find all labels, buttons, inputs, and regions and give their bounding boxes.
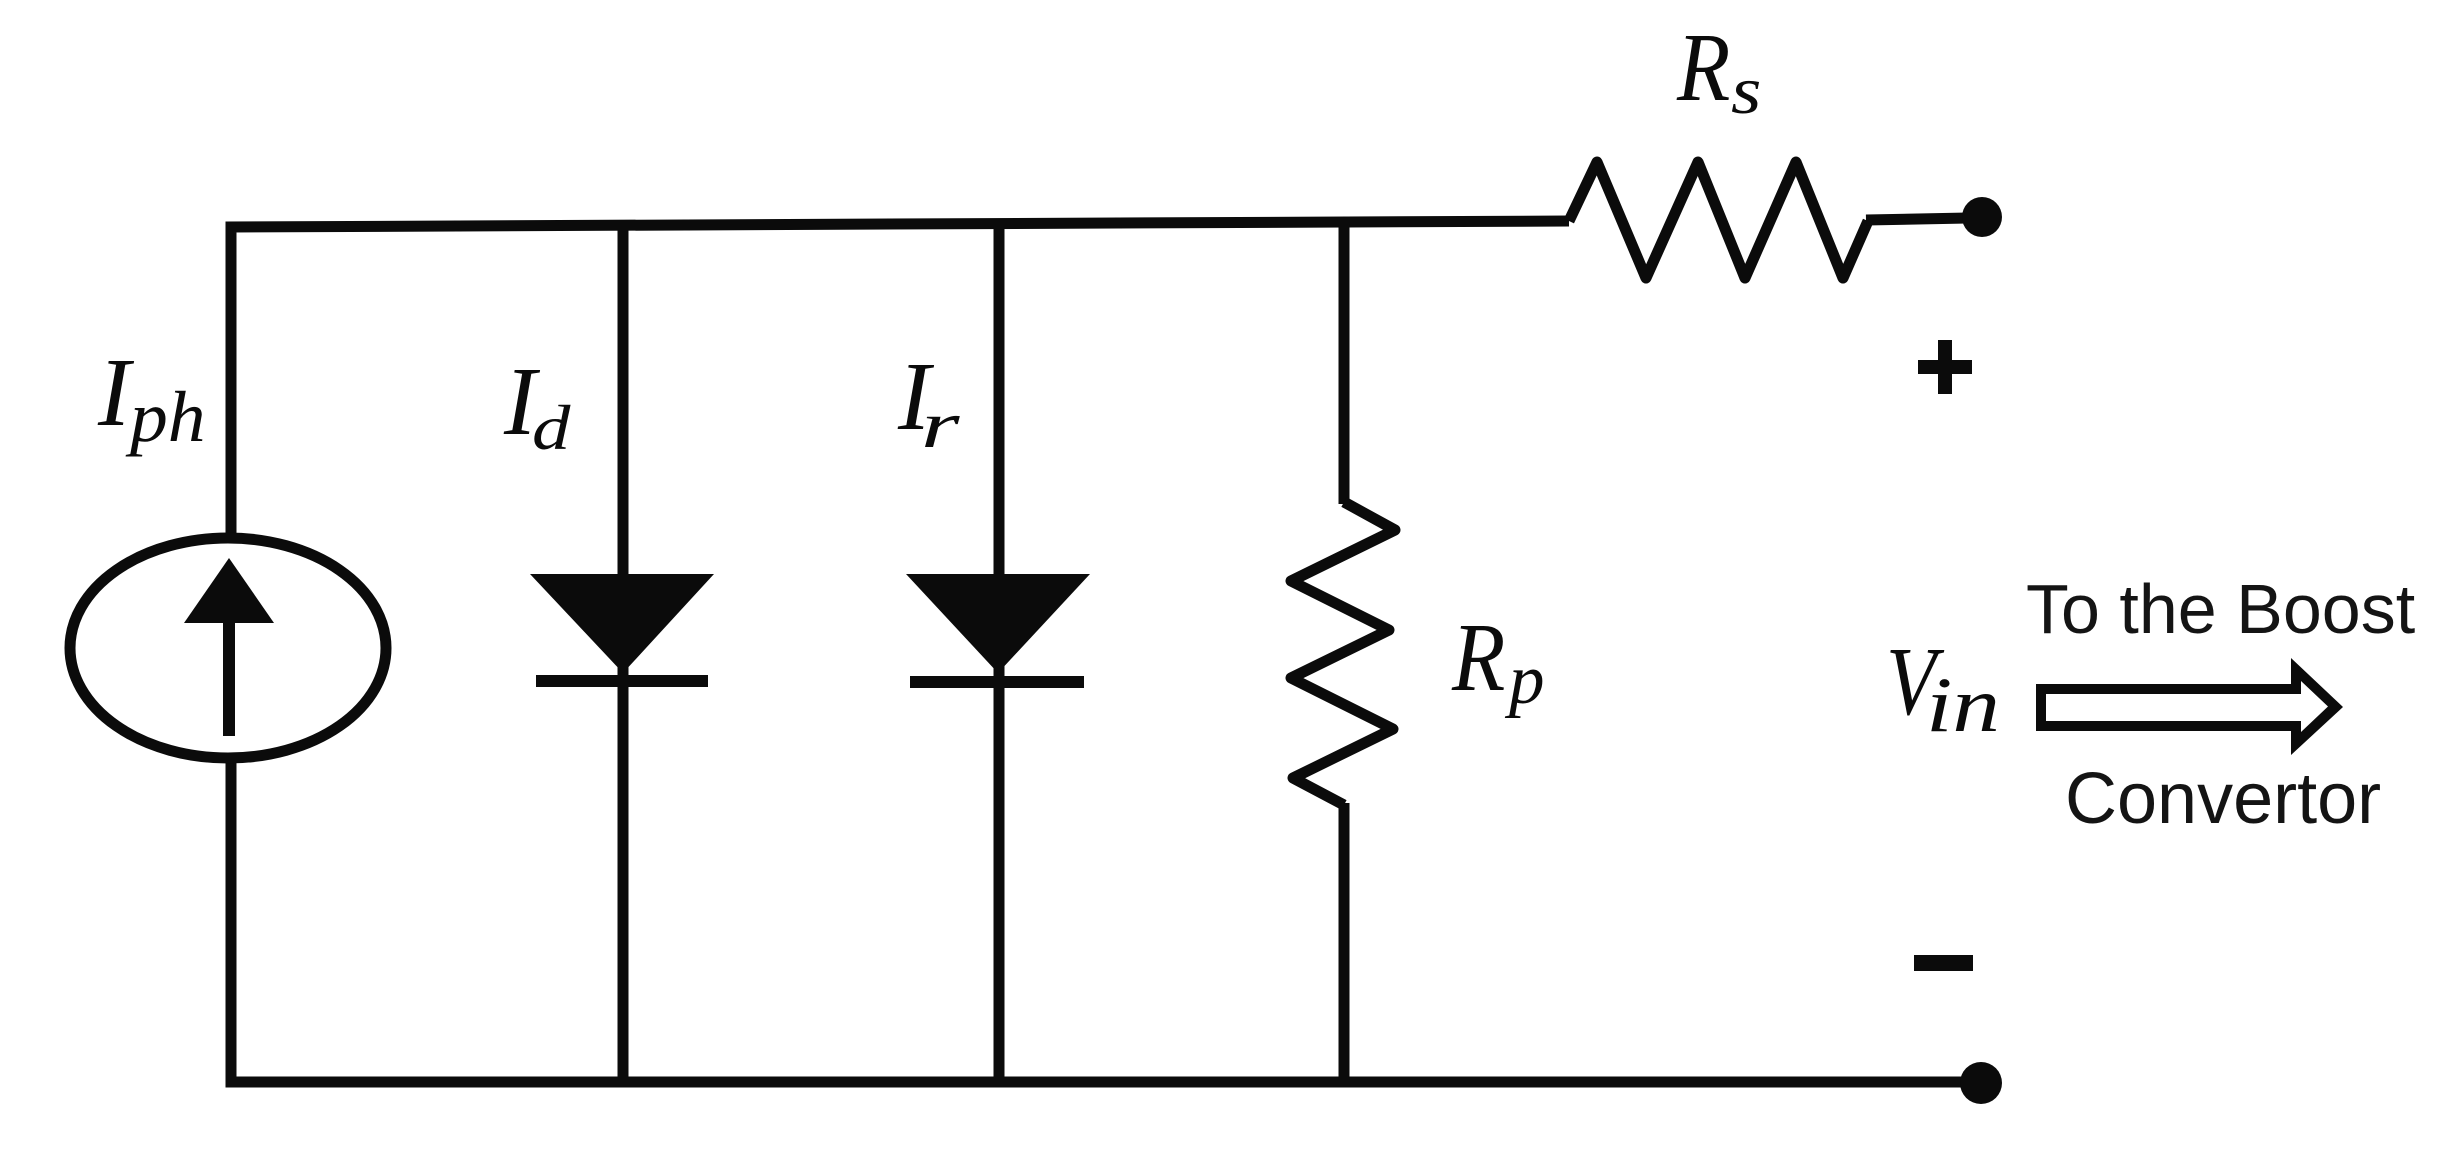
current source arrow head [184, 558, 274, 623]
label Vin [1886, 629, 1945, 736]
diode D1 (Id) triangle [530, 574, 714, 673]
svg-text:To the Boost: To the Boost [2026, 570, 2415, 648]
svg-text:ph: ph [125, 377, 206, 457]
wire left branch bottom and bottom rail [231, 758, 1978, 1082]
diode D2 cathode bar [910, 676, 1084, 688]
label Rp [1451, 604, 1505, 711]
svg-text:in: in [1926, 661, 2000, 748]
svg-text:s: s [1731, 53, 1761, 128]
resistor Rp zigzag [1291, 502, 1395, 805]
label Iph [97, 339, 135, 446]
svg-text:R: R [1451, 604, 1505, 711]
diode D1 cathode bar [536, 675, 708, 687]
svg-text:R: R [1676, 14, 1730, 121]
block arrow to boost convertor: outer [2036, 658, 2343, 755]
minus sign [1914, 955, 1973, 971]
svg-text:d: d [532, 393, 571, 464]
plus sign [1918, 360, 1972, 374]
svg-text:r: r [921, 389, 960, 462]
resistor Rs zigzag [1569, 162, 1868, 278]
wire diode branch D1 [618, 224, 629, 1082]
wire diode branch D2 [994, 222, 1005, 1082]
label Ir [897, 343, 935, 450]
svg-text:Convertor: Convertor [2065, 759, 2381, 839]
wire Rp branch bottom [1339, 803, 1350, 1082]
block arrow to boost convertor: inner [2046, 681, 2328, 732]
wire top rail from left corner to Rs [231, 221, 1569, 537]
current source U1 ellipse [70, 538, 386, 758]
node plus terminal dot [1962, 197, 2002, 237]
svg-text:p: p [1504, 641, 1545, 719]
wire Rs to plus terminal [1866, 218, 1968, 220]
wire Rp branch top [1339, 221, 1350, 504]
label Rs [1676, 14, 1730, 121]
diode D2 (Ir) triangle [906, 574, 1090, 673]
current source arrow shaft [223, 615, 235, 736]
label Id [503, 348, 541, 455]
node minus terminal dot [1960, 1062, 2002, 1104]
